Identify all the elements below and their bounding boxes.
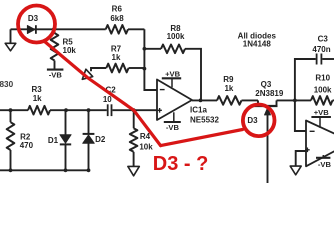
wire R7 left stub: [91, 68, 106, 71]
node C3/R10 junction: [293, 99, 297, 103]
power -VB bar under R5: [47, 69, 64, 71]
resistor R2 zigzag: [7, 122, 15, 150]
diode D3 cathode bar: [35, 25, 37, 34]
node output junction: [199, 99, 203, 103]
wire main rail right: [113, 109, 158, 111]
svg-text:R2: R2: [20, 132, 31, 141]
transistor Q3 gate arrow: [264, 108, 270, 115]
op-amp U2 plus sign: [305, 148, 310, 153]
svg-text:1N4148: 1N4148: [243, 39, 272, 48]
resistor R7 zigzag: [106, 64, 128, 73]
op-amp IC1a plus sign: [157, 108, 162, 113]
svg-text:+VB: +VB: [165, 70, 180, 79]
wire node to minus input U2: [295, 100, 306, 131]
svg-text:Q3: Q3: [261, 80, 272, 89]
resistor R10 zigzag: [311, 96, 333, 105]
node R5 top junction: [52, 28, 56, 32]
power +VB tick IC1a: [171, 78, 173, 87]
diode D1 top lead: [65, 110, 67, 135]
node D1 top: [64, 108, 68, 112]
node R2 top: [9, 108, 13, 112]
svg-text:830: 830: [0, 80, 14, 89]
node R2 bottom: [9, 168, 13, 172]
svg-text:100k: 100k: [167, 32, 185, 41]
resistor R9 zigzag: [217, 96, 242, 105]
wire R9 to Q3: [242, 99, 259, 101]
wire R7 right lead: [129, 67, 145, 69]
svg-text:R3: R3: [31, 85, 42, 94]
svg-text:10k: 10k: [63, 46, 77, 55]
wire C3 branch up: [295, 59, 316, 100]
power -VB bar U2: [316, 157, 330, 159]
wire main rail left: [0, 109, 28, 111]
resistor R6 zigzag: [106, 25, 128, 34]
svg-text:D3 - ?: D3 - ?: [153, 153, 209, 175]
wire R10 to right edge: [333, 99, 334, 101]
op-amp U1 IC1a triangle: [157, 80, 192, 121]
node R4 top: [132, 108, 136, 112]
svg-text:6k8: 6k8: [110, 14, 124, 23]
svg-text:D3: D3: [28, 14, 39, 23]
svg-text:-VB: -VB: [166, 123, 180, 132]
diode D3 triangle: [27, 25, 35, 33]
op-amp U2 minus sign: [310, 130, 315, 132]
wire op-amp output: [192, 99, 217, 101]
resistor R3 zigzag: [28, 106, 50, 115]
diode D2 bottom lead: [88, 143, 90, 170]
op-amp IC1a minus sign: [160, 89, 165, 91]
wire C3 to right edge: [322, 58, 334, 60]
wire bottom rail: [0, 169, 89, 171]
power -VB tick IC1a: [173, 112, 175, 122]
power -VB tick U2: [322, 155, 324, 158]
resistor R2 bottom lead: [10, 150, 12, 170]
resistor R8 right lead and drop: [185, 49, 201, 101]
svg-text:R4: R4: [140, 132, 151, 141]
arrow R7 input: [82, 69, 92, 79]
wire top rail right of R6: [128, 28, 144, 30]
svg-text:470: 470: [20, 141, 34, 150]
capacitor C2 right plate: [111, 104, 113, 116]
svg-text:1k: 1k: [33, 94, 42, 103]
diode D1 cathode bar: [60, 143, 71, 145]
diode D1 triangle: [60, 135, 71, 144]
power +VB bar U2: [311, 116, 331, 118]
svg-text:1k: 1k: [224, 84, 233, 93]
svg-text:10k: 10k: [139, 142, 153, 151]
svg-text:NE5532: NE5532: [190, 116, 219, 125]
wire right vertical node bus: [144, 29, 157, 90]
svg-text:R5: R5: [63, 37, 74, 46]
resistor R8 left lead: [144, 48, 161, 50]
resistor R5 top lead: [54, 29, 56, 33]
arrow input top-left: [5, 43, 16, 51]
svg-text:-VB: -VB: [318, 160, 332, 169]
svg-text:470n: 470n: [312, 45, 330, 54]
annotation red line left: [44, 41, 161, 146]
resistor R2 top lead: [10, 110, 12, 122]
wire left pin drop: [10, 29, 12, 43]
annotation red circle at Q3: [243, 105, 275, 137]
wire ground to plus input U2: [296, 151, 306, 166]
svg-text:C3: C3: [318, 35, 329, 44]
resistor R4 bottom lead: [133, 152, 135, 167]
diode D2 cathode bar: [83, 133, 95, 135]
resistor R5 bottom lead: [54, 61, 56, 70]
wire top rail: [11, 28, 106, 30]
node D2 top: [87, 108, 91, 112]
node D2 bottom: [87, 168, 91, 172]
node R7 right junction: [143, 67, 147, 71]
diode D2 triangle: [83, 135, 95, 143]
power +VB bar IC1a: [162, 77, 181, 79]
svg-text:R10: R10: [315, 73, 330, 82]
resistor R4 zigzag: [130, 128, 138, 152]
wire Q3 source to node: [277, 99, 312, 101]
svg-text:D1: D1: [48, 136, 59, 145]
resistor R4 top lead: [133, 110, 135, 128]
power +VB tick U2: [319, 117, 321, 128]
arrow ground U2: [290, 166, 301, 175]
wire Q3 gate down: [267, 114, 269, 183]
transistor Q3 channel bar: [253, 105, 278, 107]
node R8 left junction: [143, 47, 147, 51]
diode D2 top lead: [88, 110, 90, 134]
svg-text:2N3819: 2N3819: [255, 89, 284, 98]
svg-text:R6: R6: [112, 5, 123, 14]
arrow R4 bottom: [128, 166, 139, 175]
annotation red circle top-left: [18, 6, 55, 43]
op-amp U2 triangle: [306, 121, 334, 167]
diode D1 bottom lead: [65, 144, 67, 170]
resistor R8 zigzag: [161, 45, 185, 54]
annotation red line right: [161, 130, 243, 146]
capacitor C2 left plate: [107, 104, 109, 116]
transistor Q3 source rise: [276, 100, 278, 106]
svg-text:IC1a: IC1a: [190, 105, 207, 114]
svg-text:10: 10: [103, 95, 112, 104]
capacitor C3 right plate: [320, 54, 322, 65]
power -VB bar IC1a: [164, 121, 181, 123]
transistor Q3 drain drop: [257, 100, 259, 106]
node D1 bottom: [64, 168, 68, 172]
svg-text:1k: 1k: [112, 53, 121, 62]
capacitor C3 left plate: [316, 54, 318, 65]
svg-text:-VB: -VB: [49, 70, 63, 79]
wire main rail mid: [50, 109, 107, 111]
resistor R5 zigzag: [51, 33, 59, 61]
svg-text:D3: D3: [247, 116, 258, 125]
svg-text:D2: D2: [95, 135, 106, 144]
svg-text:100k: 100k: [314, 86, 332, 95]
svg-text:+VB: +VB: [314, 108, 329, 117]
